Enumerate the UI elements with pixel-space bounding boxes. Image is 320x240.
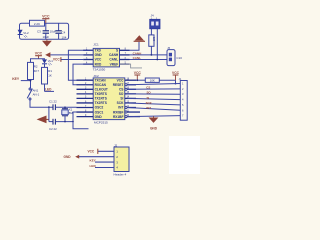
svg-text:MCP2515: MCP2515 — [94, 120, 108, 124]
svg-text:R1: R1 — [48, 69, 52, 73]
svg-text:120: 120 — [152, 37, 156, 42]
svg-text:TXCAN: TXCAN — [95, 78, 107, 82]
svg-text:VL2: VL2 — [23, 31, 29, 35]
svg-text:SCK: SCK — [117, 101, 124, 105]
svg-text:4K7: 4K7 — [34, 69, 40, 73]
svg-text:TX1RTS: TX1RTS — [95, 97, 107, 101]
svg-text:KEY: KEY — [90, 159, 97, 163]
svg-text:RXD: RXD — [95, 62, 102, 66]
svg-text:VCC: VCC — [53, 58, 60, 62]
svg-text:CANL: CANL — [133, 56, 141, 60]
svg-text:TX2RTS: TX2RTS — [95, 101, 107, 105]
svg-text:SCK: SCK — [146, 101, 153, 105]
svg-text:Header 4: Header 4 — [114, 173, 127, 177]
svg-text:RX1BF: RX1BF — [113, 115, 124, 119]
svg-text:104: 104 — [62, 35, 67, 39]
svg-text:JC1: JC1 — [93, 43, 99, 47]
svg-text:OSC1: OSC1 — [95, 110, 104, 114]
svg-text:OSC2: OSC2 — [95, 106, 104, 110]
svg-text:CLKOUT: CLKOUT — [95, 88, 108, 92]
svg-text:CANL: CANL — [109, 58, 118, 62]
svg-text:RXCAN: RXCAN — [95, 83, 107, 87]
svg-text:TJA1050: TJA1050 — [93, 68, 106, 72]
svg-text:C1 22: C1 22 — [49, 100, 57, 104]
svg-text:2.2K: 2.2K — [34, 22, 40, 26]
svg-text:CS: CS — [119, 88, 123, 92]
svg-text:LED: LED — [45, 88, 52, 92]
svg-text:INT: INT — [146, 106, 151, 110]
svg-text:VCC: VCC — [134, 71, 142, 75]
svg-text:10uF: 10uF — [43, 35, 50, 39]
svg-text:CANH: CANH — [109, 53, 119, 57]
svg-text:10K: 10K — [150, 78, 155, 82]
svg-text:GND: GND — [64, 155, 72, 159]
svg-text:GND: GND — [95, 53, 103, 57]
svg-text:SO: SO — [119, 92, 124, 96]
svg-text:VREF: VREF — [110, 62, 119, 66]
svg-text:SI: SI — [120, 97, 123, 101]
svg-text:LED: LED — [90, 164, 97, 168]
svg-text:TX0RTS: TX0RTS — [95, 92, 107, 96]
svg-text:INT: INT — [118, 106, 123, 110]
svg-text:GND: GND — [95, 115, 103, 119]
svg-text:10uF: 10uF — [50, 29, 57, 33]
svg-text:GND: GND — [150, 126, 158, 130]
svg-text:VCC: VCC — [95, 58, 102, 62]
svg-text:SI: SI — [147, 96, 150, 100]
svg-text:C10: C10 — [176, 56, 182, 60]
svg-text:VCC: VCC — [117, 78, 124, 82]
svg-text:VCC: VCC — [35, 51, 43, 55]
svg-text:C4: C4 — [62, 30, 66, 34]
svg-text:TXD: TXD — [95, 49, 102, 53]
svg-text:R2: R2 — [34, 65, 38, 69]
svg-text:AN-1: AN-1 — [33, 93, 40, 97]
svg-text:KEY: KEY — [12, 77, 20, 81]
svg-text:CS: CS — [146, 86, 150, 90]
svg-text:RESET: RESET — [113, 83, 124, 87]
svg-text:C2 22: C2 22 — [49, 127, 57, 131]
svg-text:C3: C3 — [37, 29, 41, 33]
svg-text:S: S — [116, 49, 118, 53]
svg-text:VCC: VCC — [88, 150, 95, 154]
svg-text:CANH: CANH — [133, 51, 142, 55]
svg-text:RX0BF: RX0BF — [113, 110, 124, 114]
svg-text:VCC: VCC — [172, 71, 180, 75]
svg-text:1K: 1K — [48, 73, 52, 77]
svg-text:J4: J4 — [151, 14, 154, 18]
svg-text:VCC: VCC — [42, 14, 50, 18]
